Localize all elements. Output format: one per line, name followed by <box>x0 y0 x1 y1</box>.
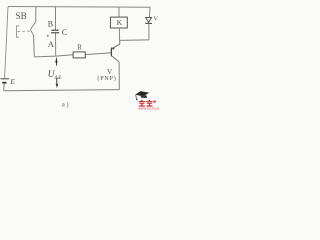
svg-text:E: E <box>9 77 15 86</box>
svg-text:a): a) <box>62 101 71 109</box>
svg-text:B: B <box>48 19 53 28</box>
svg-text:AE: AE <box>54 75 62 81</box>
svg-text:K: K <box>117 18 123 27</box>
svg-text:C: C <box>62 28 67 37</box>
svg-text:WWW.DGJS123.COM: WWW.DGJS123.COM <box>138 106 160 110</box>
svg-text:R: R <box>77 43 82 51</box>
svg-text:V: V <box>153 16 158 23</box>
svg-text:(PNP): (PNP) <box>97 75 116 82</box>
svg-text:A: A <box>48 39 55 49</box>
svg-text:V: V <box>107 67 113 76</box>
svg-text:SB: SB <box>16 11 27 21</box>
